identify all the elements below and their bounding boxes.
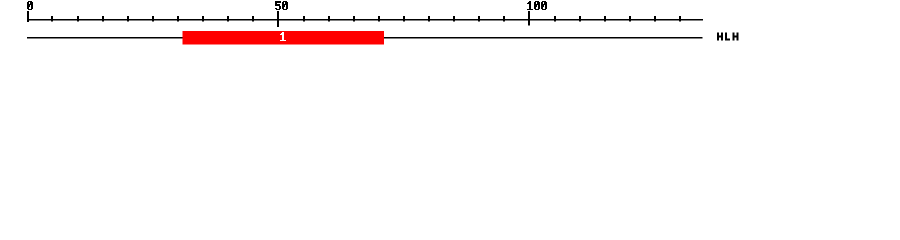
domain name HLH (717, 33, 739, 41)
ruler minor ticks (51, 16, 681, 22)
protein backbone line (27, 37, 703, 39)
ruler label 50 (275, 1, 288, 10)
domain box label 1 (white) (280, 32, 286, 41)
ruler major tick 0 (27, 11, 29, 22)
ruler line (27, 19, 703, 21)
domain box 1 (red) (183, 31, 385, 44)
ruler label 0 (27, 1, 33, 10)
ruler major tick 50 (277, 11, 279, 27)
ruler label 100 (527, 1, 547, 10)
ruler major tick 100 (528, 11, 530, 26)
